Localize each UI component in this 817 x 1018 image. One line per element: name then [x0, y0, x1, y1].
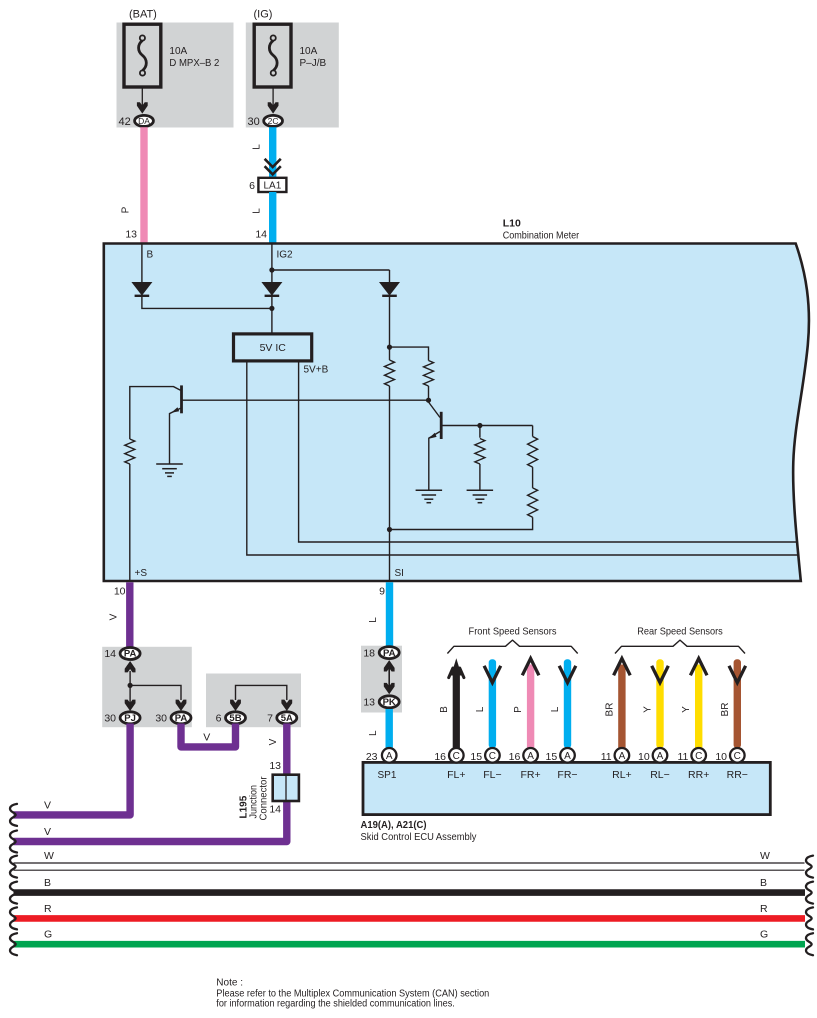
svg-text:10: 10 [638, 751, 650, 763]
sensor wire RR+ (Y) [695, 665, 702, 749]
svg-text:RL+: RL+ [612, 769, 632, 781]
ECU terminal 10 A RL- [653, 748, 668, 763]
wire from fuse F2 to connector 2C [272, 87, 274, 109]
resistor R5 [528, 437, 538, 468]
5V IC box [234, 334, 312, 361]
wire R4 to ground [479, 464, 481, 490]
svg-text:W: W [760, 850, 770, 862]
node at PA branch [128, 683, 133, 688]
svg-text:W: W [44, 850, 54, 862]
fuse F1 10A D MPX-B 2 [124, 24, 161, 87]
svg-text:V: V [268, 738, 279, 745]
svg-text:Y: Y [681, 706, 692, 713]
svg-text:PA: PA [124, 649, 137, 660]
svg-text:A: A [386, 751, 393, 762]
junction connector L195 [273, 775, 299, 801]
wire L (blue) from SI pin 9 to connector PA [386, 582, 393, 647]
ECU terminal 15 A FR- [560, 748, 575, 763]
svg-text:10: 10 [715, 751, 727, 763]
sensor wire FR+ (P) [527, 665, 534, 749]
sensor wire FR- (L) [564, 659, 571, 748]
svg-text:B: B [439, 706, 450, 713]
svg-text:5V+B: 5V+B [304, 365, 329, 376]
terminal IG2 entry wire [271, 244, 273, 283]
svg-text:L: L [550, 706, 561, 712]
svg-text:A: A [564, 751, 571, 762]
svg-text:30: 30 [104, 713, 116, 725]
node D1-D2 [269, 306, 274, 311]
fuse block (IG) gray panel [246, 23, 339, 128]
ground G2 [416, 489, 443, 491]
connector terminal 30 PA [171, 712, 191, 724]
connector terminal 6 5B [226, 712, 246, 724]
svg-text:Rear Speed Sensors: Rear Speed Sensors [637, 626, 723, 638]
svg-text:7: 7 [267, 713, 273, 725]
ground G3 [467, 489, 494, 491]
svg-text:P: P [513, 706, 524, 713]
transistor Q1 [180, 385, 183, 413]
wire IG2 branch to diode D3 [272, 269, 390, 271]
wire from D2 node to 5V IC [271, 296, 273, 334]
svg-text:D MPX–B 2: D MPX–B 2 [169, 58, 219, 69]
svg-text:15: 15 [546, 751, 558, 763]
svg-text:BR: BR [720, 703, 731, 717]
svg-text:10: 10 [114, 586, 126, 598]
svg-text:SP1: SP1 [378, 770, 397, 781]
SI line down to terminal [389, 386, 391, 581]
svg-text:G: G [760, 929, 768, 941]
ECU terminal 11 C RR+ [691, 748, 706, 763]
svg-text:for information regarding the: for information regarding the shielded c… [216, 999, 454, 1010]
connector terminal 13 PK [379, 696, 399, 708]
svg-text:BR: BR [604, 703, 615, 717]
svg-text:A: A [657, 751, 664, 762]
arrow into PJ top [125, 700, 136, 711]
svg-text:V: V [109, 613, 120, 620]
svg-text:14: 14 [269, 804, 281, 816]
diode D1 [132, 283, 151, 296]
connector terminal 18 PA [379, 647, 399, 659]
sensor wire RL+ (BR) [618, 665, 625, 749]
svg-text:6: 6 [216, 713, 222, 725]
ECU terminal 16 C FL+ [449, 748, 464, 763]
svg-text:B: B [760, 877, 767, 889]
transistor Q1 emitter wire [170, 408, 181, 464]
svg-text:10A: 10A [169, 46, 187, 57]
node R3-Q2 [426, 398, 431, 403]
svg-text:L: L [252, 208, 263, 214]
svg-text:Connector: Connector [259, 776, 270, 821]
curl R left [10, 907, 17, 929]
svg-text:L: L [252, 144, 263, 150]
transistor Q2 output wire right [442, 425, 533, 427]
svg-text:FL+: FL+ [447, 769, 465, 781]
curl V1 left [10, 804, 17, 826]
svg-text:11: 11 [677, 751, 688, 763]
wire R6 to SI node [390, 517, 533, 529]
svg-text:6: 6 [249, 180, 255, 192]
svg-text:18: 18 [363, 647, 375, 659]
svg-text:30: 30 [248, 116, 260, 128]
svg-text:(IG): (IG) [254, 9, 273, 21]
svg-text:Combination Meter: Combination Meter [503, 230, 580, 242]
ECU terminal 16 A FR+ [523, 748, 538, 763]
wire L (blue) from PK to ECU terminal 23 A [386, 709, 393, 748]
svg-text:L10: L10 [503, 218, 521, 230]
svg-text:PA: PA [175, 713, 188, 724]
svg-text:R: R [44, 903, 52, 915]
wire V (purple) from PJ to left edge [14, 724, 131, 815]
svg-text:C: C [734, 751, 741, 762]
svg-text:LA1: LA1 [264, 181, 282, 192]
wire V (purple) from 5A through L195 to left edge [14, 724, 287, 842]
connector block PA/PK gray panel [361, 646, 402, 713]
svg-text:FR−: FR− [557, 769, 577, 781]
svg-text:PK: PK [383, 697, 396, 708]
transistor Q1 base wire [183, 399, 429, 401]
sensor wire FL+ (B) [453, 670, 460, 748]
svg-text:A: A [619, 751, 626, 762]
branch wire to 30 PA [130, 685, 181, 700]
resistor chain R5 R6 wires [532, 426, 534, 437]
splice double-chevron on wire L [265, 159, 281, 167]
svg-text:5V IC: 5V IC [260, 342, 287, 354]
svg-text:L: L [368, 730, 379, 736]
arrow into 5B top [230, 700, 241, 711]
wire node to resistor R3 [390, 347, 429, 360]
svg-text:16: 16 [509, 751, 521, 763]
svg-text:R: R [760, 903, 768, 915]
svg-text:C: C [695, 751, 702, 762]
svg-text:B: B [147, 250, 154, 261]
transistor Q1 collector wire to resistor R1 [130, 387, 181, 439]
svg-text:5B: 5B [229, 713, 241, 724]
arrow into 5A top [281, 700, 292, 711]
curl G right [806, 933, 813, 955]
svg-text:30: 30 [155, 713, 167, 725]
svg-text:IG2: IG2 [277, 250, 294, 261]
5V IC output wire left [247, 361, 799, 555]
terminal B entry wire [141, 244, 143, 283]
connector terminal 42 DA [135, 115, 154, 126]
svg-text:B: B [44, 877, 51, 889]
svg-text:A19(A), A21(C): A19(A), A21(C) [361, 819, 427, 831]
svg-text:16: 16 [434, 751, 446, 763]
transistor Q2 emitter wire [429, 432, 440, 491]
transistor Q2 [440, 412, 443, 439]
svg-text:14: 14 [104, 648, 116, 660]
resistor R6 [528, 488, 538, 517]
svg-text:Note :: Note : [216, 978, 243, 989]
resistor R4 drop wire [479, 426, 481, 438]
arrow into PA bottom [125, 661, 136, 672]
wire PA to branch node [129, 671, 131, 704]
svg-text:RR+: RR+ [688, 769, 709, 781]
svg-text:(BAT): (BAT) [129, 9, 157, 21]
svg-text:Skid Control ECU Assembly: Skid Control ECU Assembly [361, 831, 478, 843]
wire R3 to Q2 node [428, 386, 430, 400]
node IG2-D3 [269, 267, 274, 272]
resistor R2 on SI line [385, 360, 395, 386]
resistor R4 [475, 439, 485, 465]
svg-text:FR+: FR+ [521, 769, 541, 781]
Rear Speed Sensors brace [615, 640, 745, 653]
svg-text:C: C [489, 751, 496, 762]
svg-text:+S: +S [135, 568, 148, 579]
connector block 5B/5A gray panel [206, 674, 301, 728]
svg-text:11: 11 [601, 751, 612, 763]
svg-text:SI: SI [395, 568, 404, 579]
double arrow between PA and PK [384, 660, 395, 671]
ECU terminal 11 A RL+ [615, 748, 630, 763]
wire from diode D1 to node under D2 [142, 296, 272, 309]
svg-text:2C: 2C [268, 116, 279, 126]
svg-text:13: 13 [363, 697, 375, 709]
diode D2 [262, 283, 281, 296]
connector terminal 30 2C [264, 115, 283, 126]
node Q2-R4 [477, 423, 482, 428]
connector block PA/PJ gray panel [102, 647, 192, 727]
connector terminal 30 PJ [120, 712, 140, 724]
svg-text:9: 9 [379, 586, 385, 598]
svg-text:RL−: RL− [650, 769, 670, 781]
junction connector 6 LA1 [258, 178, 286, 192]
bus wire G (green) [14, 941, 806, 948]
bus wire W (CAN) [14, 863, 805, 870]
wire from diode D3 down to node [389, 296, 391, 360]
svg-text:23: 23 [366, 751, 378, 763]
sensor wire RR- (BR) [734, 659, 741, 748]
wire V (purple) from +S pin 10 to connector PA [126, 582, 133, 647]
svg-text:V: V [44, 800, 51, 812]
svg-text:C: C [453, 751, 460, 762]
curl W left [10, 856, 17, 878]
svg-text:DA: DA [138, 116, 150, 126]
ECU terminal 10 C RR- [730, 748, 745, 763]
svg-text:P: P [121, 206, 132, 213]
resistor R3 [424, 361, 434, 387]
wire L (blue) from LA1 to combination meter pin 14 [269, 192, 276, 245]
sensor wire RL- (Y) [656, 659, 663, 748]
Front Speed Sensors brace [447, 640, 577, 653]
bus wire R (red) [14, 915, 806, 922]
svg-text:FL−: FL− [483, 769, 501, 781]
transistor Q2 collector wire [429, 402, 441, 418]
svg-text:L: L [368, 617, 379, 623]
svg-text:PJ: PJ [124, 713, 136, 724]
curl V2 left [10, 831, 17, 853]
wire P (pink) from DA to combination meter pin 13 [140, 127, 147, 245]
ground G1 [156, 463, 183, 465]
svg-text:13: 13 [269, 760, 281, 772]
curl B right [806, 882, 813, 904]
connector terminal 14 PA [120, 648, 140, 660]
svg-text:13: 13 [125, 229, 137, 241]
ECU terminal 23 A SP1 [382, 748, 397, 763]
svg-text:Y: Y [643, 706, 654, 713]
arrow into 30 PA top [176, 700, 187, 711]
combination meter L10 box [104, 244, 809, 582]
wire R1 to terminal +S [129, 464, 131, 581]
jumper wire 5B to 5A [236, 685, 287, 700]
fuse block (BAT) gray panel [117, 23, 234, 128]
svg-text:P–J/B: P–J/B [300, 58, 327, 69]
svg-text:10A: 10A [300, 46, 318, 57]
ECU terminal 15 C FL- [485, 748, 500, 763]
resistor R1 [125, 439, 135, 464]
diode D3 [380, 283, 399, 296]
curl B left [10, 882, 17, 904]
svg-text:Front Speed Sensors: Front Speed Sensors [469, 626, 557, 638]
svg-text:V: V [203, 732, 210, 744]
wire V (purple) PA to 5B [181, 724, 236, 747]
skid control ECU box [363, 762, 770, 814]
wire L (blue) from 2C to junction LA1 [269, 127, 276, 179]
svg-text:A: A [527, 751, 534, 762]
svg-text:5A: 5A [281, 713, 293, 724]
svg-text:PA: PA [383, 648, 396, 659]
node D3 out [387, 345, 392, 350]
fuse F2 10A P-J/B [254, 24, 291, 87]
svg-text:14: 14 [255, 229, 267, 241]
connector terminal 7 5A [277, 712, 297, 724]
sensor wire FL- (L) [489, 659, 496, 748]
svg-text:RR−: RR− [727, 769, 748, 781]
curl W right [806, 856, 813, 878]
curl G left [10, 933, 17, 955]
wire from fuse F1 to connector DA [141, 87, 143, 109]
bus wire B (black) [14, 889, 806, 896]
svg-text:G: G [44, 929, 52, 941]
wire R5 to R6 [532, 467, 534, 488]
svg-text:15: 15 [470, 751, 482, 763]
curl R right [806, 907, 813, 929]
node SI-R6 [387, 527, 392, 532]
svg-text:42: 42 [119, 116, 131, 128]
5V IC output wire right (5V+B) [299, 361, 797, 542]
svg-text:V: V [44, 826, 51, 838]
svg-text:L: L [475, 706, 486, 712]
